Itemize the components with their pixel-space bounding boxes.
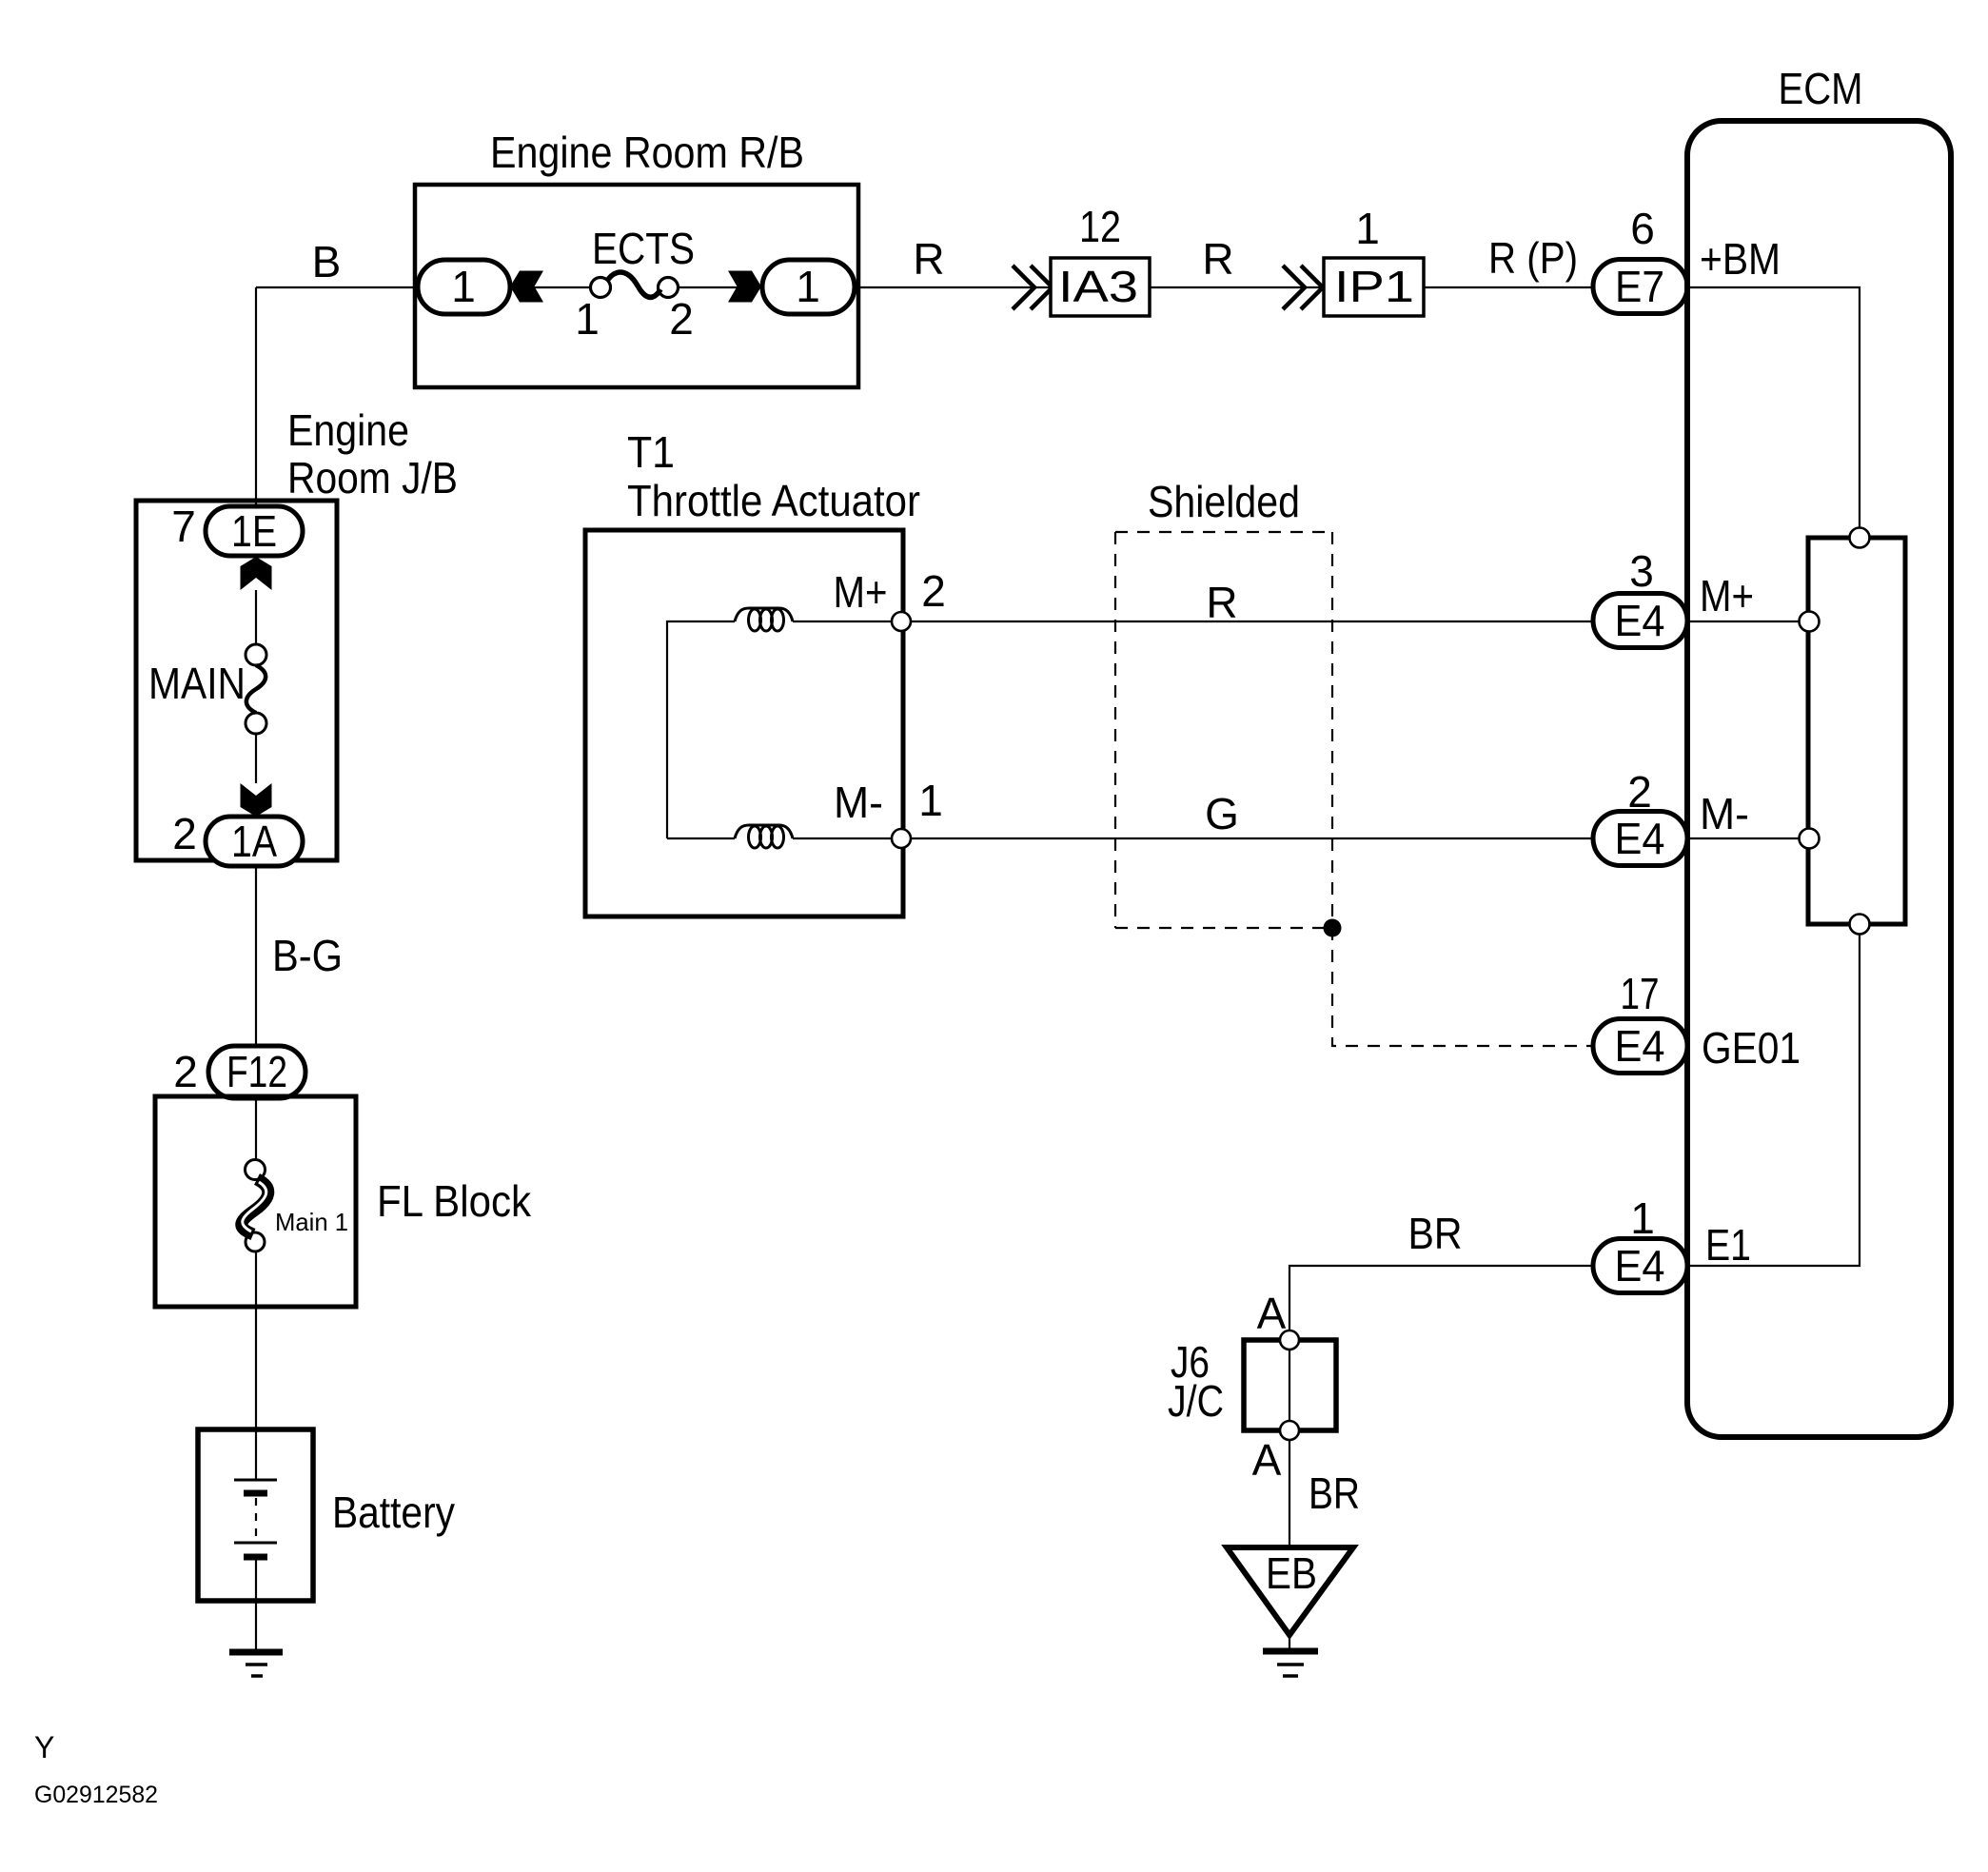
wire R from T1 pin 2 to ECM E4-3 [911, 621, 1593, 622]
arrowhead pointing left (into connector 1) [510, 271, 543, 303]
svg-text:1E: 1E [231, 506, 277, 556]
svg-text:EB: EB [1266, 1548, 1317, 1598]
svg-text:R: R [1206, 578, 1237, 627]
wire from FL Block down to Battery [255, 1251, 257, 1479]
connector IA3 [1051, 258, 1150, 316]
wire M- internal stub [1690, 837, 1799, 839]
driver block bottom pin [1850, 915, 1870, 935]
svg-text:1: 1 [575, 294, 600, 344]
svg-text:2: 2 [921, 566, 946, 616]
driver block M+ pin [1800, 612, 1820, 632]
svg-text:12: 12 [1079, 202, 1121, 251]
wire E1 internal (ground return to driver block) [1690, 935, 1860, 1266]
wire vertical from B corner down to 1E connector [255, 287, 257, 507]
chevron pass-through marks before IP1 [1283, 266, 1323, 309]
T1 pin 2 circle [892, 612, 911, 631]
svg-text:M+: M+ [1700, 571, 1754, 621]
FL Block box [155, 1096, 356, 1307]
svg-text:Engine Room R/B: Engine Room R/B [490, 128, 804, 177]
T1 internal wire left loop [667, 621, 892, 838]
svg-text:E4: E4 [1615, 814, 1665, 863]
Engine Room R/B box [415, 185, 858, 387]
svg-text:Engine: Engine [287, 405, 409, 455]
svg-text:J/C: J/C [1168, 1376, 1224, 1426]
wire BR from E4-1 to junction J6 [1289, 1266, 1593, 1330]
battery cell symbol [234, 1480, 277, 1557]
wire +BM internal (E7 to driver block) [1690, 287, 1860, 527]
svg-text:G02912582: G02912582 [34, 1782, 158, 1808]
shield drain dashed wire to E4-17 [1332, 928, 1593, 1046]
svg-text:F12: F12 [226, 1047, 287, 1096]
svg-text:MAIN: MAIN [148, 659, 246, 708]
svg-text:B: B [312, 237, 342, 286]
connector oval 1E [206, 506, 303, 556]
svg-text:2: 2 [173, 1047, 198, 1096]
svg-text:GE01: GE01 [1702, 1023, 1801, 1073]
wire B horizontal from corner to Engine Room R/B [256, 286, 415, 288]
svg-text:M-: M- [834, 778, 883, 827]
svg-text:A: A [1252, 1435, 1282, 1485]
svg-text:ECTS: ECTS [592, 224, 695, 273]
svg-text:Throttle Actuator: Throttle Actuator [627, 476, 920, 525]
wire from fuse MAIN to down arrow [255, 734, 257, 783]
svg-text:R: R [1202, 234, 1233, 284]
chevron pass-through marks before IA3 [1013, 266, 1053, 309]
wire R from IA3 to IP1 [1150, 286, 1324, 288]
svg-text:+BM: +BM [1700, 234, 1781, 284]
connector oval 1 (left, Engine Room R/B) [418, 260, 510, 314]
ECM box [1687, 121, 1951, 1437]
T1 Throttle Actuator label [627, 427, 920, 525]
ground symbol (battery) [229, 1652, 283, 1676]
svg-text:FL Block: FL Block [377, 1176, 532, 1226]
svg-text:BR: BR [1408, 1209, 1463, 1258]
svg-text:E4: E4 [1615, 596, 1665, 645]
ground point EB triangle [1227, 1547, 1353, 1635]
svg-text:1: 1 [918, 776, 943, 825]
svg-text:E4: E4 [1615, 1021, 1665, 1071]
svg-text:1: 1 [1355, 204, 1380, 253]
svg-text:Main 1: Main 1 [275, 1208, 348, 1236]
svg-text:E7: E7 [1615, 262, 1664, 311]
connector IP1 [1324, 258, 1424, 316]
wire from left arrow to fuse ECTS [531, 286, 591, 288]
wire from fuse ECTS to right arrow [678, 286, 740, 288]
svg-text:R: R [913, 234, 944, 284]
wire G from T1 pin 1 to ECM E4-2 [911, 837, 1593, 839]
svg-text:17: 17 [1621, 969, 1660, 1018]
driver block top pin [1850, 528, 1870, 548]
wire R (P) from IP1 to E7 [1424, 286, 1593, 288]
svg-text:1: 1 [451, 262, 476, 311]
J6 internal wire [1289, 1350, 1290, 1421]
svg-text:M+: M+ [834, 567, 888, 617]
connector oval E7 [1593, 260, 1687, 314]
connector oval E4 (pin 3) [1593, 594, 1687, 648]
connector oval F12 [208, 1046, 305, 1098]
wire BR from J6 to ground EB [1289, 1440, 1290, 1547]
connector oval 1A [206, 817, 303, 866]
Engine Room J/B label [287, 405, 458, 502]
fusible link Main 1 symbol [242, 1160, 268, 1252]
arrowhead pointing up (into 1E) [241, 557, 272, 590]
Battery box [198, 1429, 313, 1601]
shield junction dot [1324, 919, 1342, 937]
svg-text:6: 6 [1630, 204, 1655, 253]
svg-text:A: A [1257, 1289, 1287, 1338]
arrowhead pointing right (into connector 1) [728, 271, 761, 303]
svg-text:1: 1 [1630, 1193, 1655, 1243]
svg-text:T1: T1 [627, 427, 675, 477]
svg-text:B-G: B-G [272, 931, 343, 980]
svg-text:Shielded: Shielded [1148, 477, 1300, 526]
svg-text:R (P): R (P) [1488, 233, 1578, 283]
svg-text:1A: 1A [231, 817, 277, 866]
svg-text:1: 1 [796, 262, 820, 311]
wire from battery to ground [255, 1560, 257, 1649]
svg-text:2: 2 [172, 809, 197, 858]
svg-text:M-: M- [1700, 789, 1749, 838]
svg-text:Y: Y [34, 1730, 54, 1764]
svg-text:IP1: IP1 [1334, 262, 1414, 311]
svg-text:2: 2 [669, 294, 694, 344]
driver block M- pin [1800, 829, 1820, 849]
wire B-G from 1A down to F12 [255, 866, 257, 1046]
connector oval E4 (pin 1) [1593, 1239, 1687, 1293]
svg-text:IA3: IA3 [1058, 262, 1138, 311]
svg-text:Battery: Battery [332, 1488, 455, 1537]
Engine Room J/B box [136, 501, 337, 860]
wire R from Engine Room R/B to connector IA3 [858, 286, 1051, 288]
wire from up arrow to fuse MAIN [255, 590, 257, 644]
svg-text:G: G [1205, 789, 1239, 838]
connector oval E4 (pin 17) [1593, 1019, 1687, 1074]
T1 Throttle Actuator box [585, 530, 903, 916]
ECM internal driver block [1808, 538, 1905, 924]
J6 top pin circle [1280, 1330, 1299, 1350]
motor coil M- [735, 825, 793, 848]
wire from EB apex to ground [1289, 1635, 1290, 1649]
arrowhead pointing down (into 1A) [241, 783, 272, 817]
svg-text:E1: E1 [1705, 1220, 1751, 1270]
wire from F12 into FL Block [255, 1098, 257, 1160]
fuse ECTS symbol [591, 272, 679, 297]
svg-text:E4: E4 [1615, 1241, 1665, 1291]
svg-text:ECM: ECM [1779, 64, 1863, 113]
J6 bottom pin circle [1280, 1421, 1299, 1440]
motor coil M+ [735, 608, 793, 631]
T1 pin 1 circle [892, 829, 911, 848]
svg-text:7: 7 [171, 502, 196, 551]
junction J6 J/C box [1244, 1340, 1336, 1430]
connector oval E4 (pin 2) [1593, 812, 1687, 866]
svg-text:3: 3 [1629, 546, 1654, 596]
svg-text:BR: BR [1309, 1468, 1360, 1518]
svg-text:Room J/B: Room J/B [287, 453, 458, 502]
connector oval 1 (right, Engine Room R/B) [762, 260, 855, 314]
ground symbol (EB) [1263, 1651, 1318, 1676]
fuse MAIN symbol [246, 644, 266, 734]
shield dashed enclosure [1115, 532, 1332, 928]
wire M+ internal stub [1690, 621, 1799, 622]
